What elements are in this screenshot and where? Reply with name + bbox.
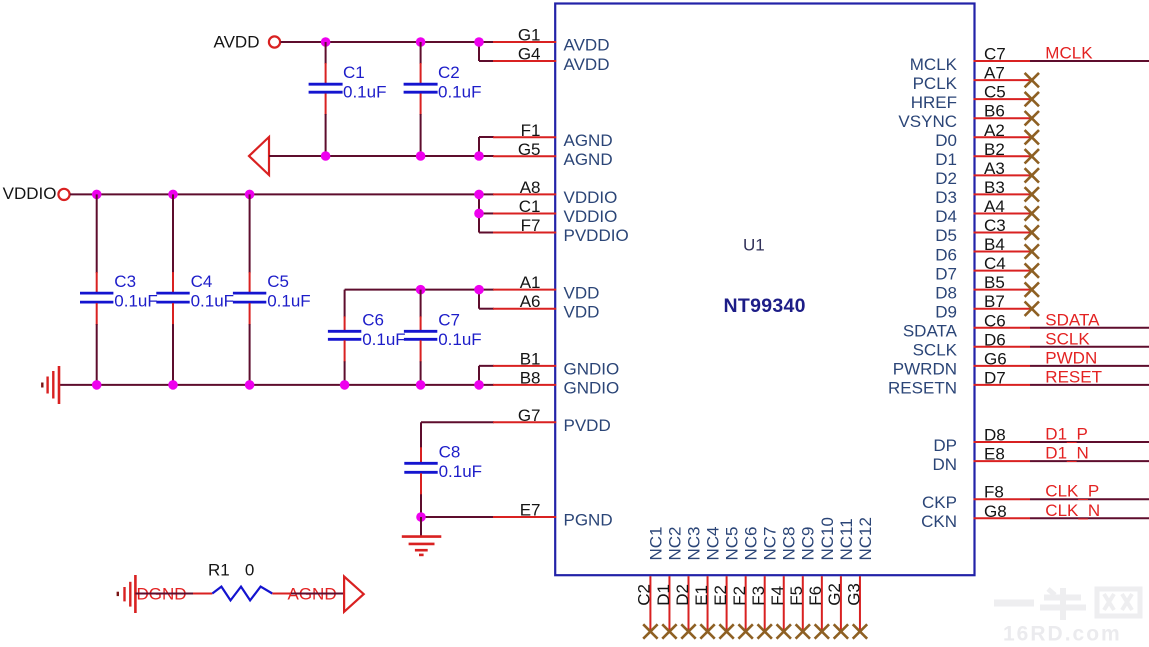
label C2 0.1uF xyxy=(438,63,481,102)
no-connect X on B6 xyxy=(1025,111,1039,125)
svg-text:D2: D2 xyxy=(935,169,957,188)
svg-text:VDDIO: VDDIO xyxy=(564,188,618,207)
no-connect X on B3 xyxy=(1025,187,1039,201)
wire net RESET xyxy=(1030,384,1149,386)
pin B7 (D9) xyxy=(935,292,1030,321)
svg-text:A2: A2 xyxy=(984,121,1005,140)
pin D7 (RESETN) xyxy=(888,368,1030,397)
capacitor C8 xyxy=(404,422,437,517)
svg-text:0.1uF: 0.1uF xyxy=(362,330,405,349)
wire VDDIO drop to C1/F7 pins xyxy=(479,194,494,232)
wire net D1_N xyxy=(1030,460,1149,462)
wire net PWDN xyxy=(1030,365,1149,367)
wire DGND to R1 xyxy=(135,593,194,595)
junction AVDD/C1 xyxy=(321,37,331,47)
svg-text:NC3: NC3 xyxy=(684,526,703,560)
junction VDDIO branch A8 xyxy=(474,190,484,200)
pin F5 (NC9) xyxy=(787,526,818,631)
svg-text:VDDIO: VDDIO xyxy=(3,184,57,203)
no-connect X on NC3 xyxy=(681,624,695,638)
svg-text:G8: G8 xyxy=(984,502,1007,521)
svg-text:C5: C5 xyxy=(984,83,1006,102)
pin G5 (AGND) xyxy=(493,140,613,169)
net label AGND (R1 right) xyxy=(288,584,337,603)
svg-text:B3: B3 xyxy=(984,178,1005,197)
svg-text:B4: B4 xyxy=(984,235,1005,254)
svg-text:A7: A7 xyxy=(984,64,1005,83)
svg-text:C6: C6 xyxy=(362,310,384,329)
svg-text:SCLK: SCLK xyxy=(913,341,958,360)
svg-text:NC7: NC7 xyxy=(761,526,780,560)
junction GND/C3 xyxy=(92,380,102,390)
ground symbol DGND xyxy=(118,575,136,613)
svg-text:SDATA: SDATA xyxy=(903,321,958,340)
no-connect X on NC7 xyxy=(758,624,772,638)
pin F8 (CKP) xyxy=(922,483,1030,512)
label C5 0.1uF xyxy=(267,272,310,311)
svg-text:D8: D8 xyxy=(984,426,1006,445)
svg-text:SDATA: SDATA xyxy=(1045,310,1100,329)
pin C4 (D7) xyxy=(935,254,1030,283)
wire VDDIO rail xyxy=(70,193,494,195)
svg-text:D1_P: D1_P xyxy=(1045,425,1088,444)
pin E1 (NC4) xyxy=(692,526,723,631)
no-connect X on A4 xyxy=(1025,206,1039,220)
no-connect X on NC10 xyxy=(815,624,829,638)
pin F6 (NC10) xyxy=(806,517,837,631)
pin F2 (NC6) xyxy=(730,526,761,631)
wire PGND (E7) xyxy=(421,516,494,518)
junction AGND branch xyxy=(474,151,484,161)
svg-text:D6: D6 xyxy=(935,245,957,264)
no-connect X on B2 xyxy=(1025,149,1039,163)
no-connect X on B4 xyxy=(1025,244,1039,258)
svg-text:VSYNC: VSYNC xyxy=(898,112,957,131)
pin C7 (MCLK) xyxy=(910,45,1030,74)
ground AGND arrow (right) xyxy=(344,577,364,612)
svg-text:F1: F1 xyxy=(521,121,541,140)
svg-text:NC2: NC2 xyxy=(665,526,684,560)
svg-text:C2: C2 xyxy=(438,63,460,82)
svg-text:AGND: AGND xyxy=(564,150,613,169)
svg-text:C4: C4 xyxy=(984,254,1006,273)
no-connect X on NC1 xyxy=(643,624,657,638)
label C1 0.1uF xyxy=(343,63,386,102)
svg-text:GNDIO: GNDIO xyxy=(564,379,620,398)
svg-text:F6: F6 xyxy=(806,586,825,606)
svg-text:D8: D8 xyxy=(935,283,957,302)
svg-text:HREF: HREF xyxy=(911,93,957,112)
pin C3 (D5) xyxy=(935,216,1030,245)
svg-text:NC5: NC5 xyxy=(723,526,742,560)
net label D1_N xyxy=(1045,444,1088,463)
pin B5 (D8) xyxy=(935,273,1030,302)
svg-text:D2: D2 xyxy=(673,584,692,606)
no-connect X on NC11 xyxy=(834,624,848,638)
svg-text:C1: C1 xyxy=(519,197,541,216)
pin G3 (NC12) xyxy=(844,517,875,631)
svg-text:NC9: NC9 xyxy=(799,526,818,560)
svg-text:MCLK: MCLK xyxy=(910,55,958,74)
pin E8 (DN) xyxy=(932,445,1030,474)
svg-text:C7: C7 xyxy=(438,310,460,329)
no-connect X on NC6 xyxy=(738,624,752,638)
svg-text:G5: G5 xyxy=(518,140,541,159)
net label RESET xyxy=(1045,367,1102,386)
no-connect X on B5 xyxy=(1025,282,1039,296)
svg-text:DP: DP xyxy=(933,436,957,455)
junction GND/C6 xyxy=(340,380,350,390)
svg-text:B8: B8 xyxy=(520,368,541,387)
net label SCLK xyxy=(1045,329,1090,348)
capacitor C5 xyxy=(233,194,266,385)
junction VDD/C7 xyxy=(416,285,426,295)
svg-text:F8: F8 xyxy=(984,483,1004,502)
svg-text:PWDN: PWDN xyxy=(1045,348,1097,367)
svg-text:SCLK: SCLK xyxy=(1045,329,1090,348)
junction VDDIO/C3 xyxy=(92,190,102,200)
svg-text:A4: A4 xyxy=(984,197,1005,216)
svg-text:D1_N: D1_N xyxy=(1045,444,1088,463)
pin D8 (DP) xyxy=(933,426,1030,455)
svg-text:PVDDIO: PVDDIO xyxy=(564,226,629,245)
svg-text:A6: A6 xyxy=(520,292,541,311)
pin E2 (NC5) xyxy=(711,526,742,631)
wire net CLK_N xyxy=(1030,517,1149,519)
pin G6 (PWRDN) xyxy=(893,349,1030,378)
svg-text:F4: F4 xyxy=(768,586,787,606)
svg-text:U1: U1 xyxy=(743,236,765,255)
svg-text:B7: B7 xyxy=(984,292,1005,311)
wire PVDD (G7) xyxy=(421,421,494,423)
pin B2 (D1) xyxy=(935,140,1030,169)
svg-text:F7: F7 xyxy=(521,216,541,235)
wire AVDD rail xyxy=(281,41,495,43)
svg-text:RESET: RESET xyxy=(1045,367,1102,386)
capacitor C4 xyxy=(156,194,189,385)
svg-text:D3: D3 xyxy=(935,188,957,207)
pin B3 (D3) xyxy=(935,178,1030,207)
pin C6 (SDATA) xyxy=(903,311,1030,340)
svg-text:CLK_P: CLK_P xyxy=(1045,482,1099,501)
svg-text:DN: DN xyxy=(932,455,957,474)
svg-text:GNDIO: GNDIO xyxy=(564,360,620,379)
net label CLK_N xyxy=(1045,501,1100,520)
svg-text:B1: B1 xyxy=(520,349,541,368)
svg-text:PWRDN: PWRDN xyxy=(893,360,957,379)
pin G4 (AVDD) xyxy=(493,45,609,74)
svg-text:A1: A1 xyxy=(520,273,541,292)
junction AGND/C1 xyxy=(321,151,331,161)
svg-text:NC6: NC6 xyxy=(742,526,761,560)
capacitor C7 xyxy=(404,290,437,385)
junction AVDD branch xyxy=(474,37,484,47)
svg-text:RESETN: RESETN xyxy=(888,379,957,398)
svg-text:B6: B6 xyxy=(984,102,1005,121)
svg-text:D6: D6 xyxy=(984,330,1006,349)
junction VDDIO branch C1 xyxy=(474,209,484,219)
power port VDDIO (terminal) xyxy=(58,189,69,200)
svg-text:C5: C5 xyxy=(267,272,289,291)
svg-text:B2: B2 xyxy=(984,140,1005,159)
pin A4 (D4) xyxy=(935,197,1030,226)
svg-text:G3: G3 xyxy=(844,583,863,606)
net label DGND xyxy=(137,584,187,603)
svg-text:NC10: NC10 xyxy=(818,517,837,560)
pin A7 (PCLK) xyxy=(913,64,1030,93)
junction VDD branch xyxy=(474,285,484,295)
no-connect X on A2 xyxy=(1025,130,1039,144)
svg-text:AVDD: AVDD xyxy=(214,33,260,52)
pin D6 (SCLK) xyxy=(913,330,1030,359)
svg-text:C1: C1 xyxy=(343,63,365,82)
net label PWDN xyxy=(1045,348,1097,367)
junction AVDD/C2 xyxy=(416,37,426,47)
svg-text:16RD.com: 16RD.com xyxy=(1003,623,1122,643)
svg-text:C6: C6 xyxy=(984,311,1006,330)
svg-text:AVDD: AVDD xyxy=(564,55,610,74)
pin B1 (GNDIO) xyxy=(493,349,619,378)
svg-text:NC8: NC8 xyxy=(780,526,799,560)
net label SDATA xyxy=(1045,310,1100,329)
svg-text:G4: G4 xyxy=(518,45,541,64)
svg-text:0.1uF: 0.1uF xyxy=(439,462,482,481)
svg-text:MCLK: MCLK xyxy=(1045,44,1093,63)
junction GND/C4 xyxy=(168,380,178,390)
pin F3 (NC7) xyxy=(749,526,780,631)
svg-text:D7: D7 xyxy=(935,264,957,283)
svg-text:D9: D9 xyxy=(935,302,957,321)
reference designator U1 xyxy=(743,236,765,255)
label C7 0.1uF xyxy=(438,310,481,349)
junction VDDIO/C4 xyxy=(168,190,178,200)
svg-text:C3: C3 xyxy=(984,216,1006,235)
pin B6 (VSYNC) xyxy=(898,102,1030,131)
svg-text:0.1uF: 0.1uF xyxy=(191,292,234,311)
pin A8 (VDDIO) xyxy=(493,178,617,207)
svg-text:NC11: NC11 xyxy=(837,518,856,560)
capacitor C3 xyxy=(80,194,113,385)
svg-text:VDDIO: VDDIO xyxy=(564,207,618,226)
wire net MCLK xyxy=(1030,60,1149,62)
net label AVDD xyxy=(214,33,260,52)
svg-text:C4: C4 xyxy=(191,272,213,291)
pin G8 (CKN) xyxy=(921,502,1030,531)
svg-text:A8: A8 xyxy=(520,178,541,197)
IC U1 NT99340 body xyxy=(555,4,974,576)
svg-text:CKP: CKP xyxy=(922,493,957,512)
label C6 0.1uF xyxy=(362,310,405,349)
wire net SCLK xyxy=(1030,346,1149,348)
pin F4 (NC8) xyxy=(768,526,799,631)
svg-text:0: 0 xyxy=(245,560,254,579)
pin D2 (NC3) xyxy=(673,526,704,631)
svg-text:C3: C3 xyxy=(114,272,136,291)
svg-text:PGND: PGND xyxy=(564,511,613,530)
pin D1 (NC2) xyxy=(654,526,685,631)
junction C8/PGND xyxy=(416,512,426,522)
svg-text:A3: A3 xyxy=(984,159,1005,178)
pin B4 (D6) xyxy=(935,235,1030,264)
junction GND/C5 xyxy=(245,380,255,390)
junction VDDIO/C5 xyxy=(245,190,255,200)
junction GND/C7 xyxy=(416,380,426,390)
pin C2 (NC1) xyxy=(635,526,666,631)
label C3 0.1uF xyxy=(114,272,157,311)
svg-text:F3: F3 xyxy=(749,586,768,606)
pin E7 (PGND) xyxy=(493,501,613,530)
label C4 0.1uF xyxy=(191,272,234,311)
junction GND/branch xyxy=(474,380,484,390)
pin G2 (NC11) xyxy=(825,518,856,631)
pin A1 (VDD) xyxy=(493,273,599,302)
svg-text:AGND: AGND xyxy=(564,131,613,150)
svg-text:0.1uF: 0.1uF xyxy=(438,83,481,102)
net label MCLK xyxy=(1045,44,1093,63)
no-connect X on NC4 xyxy=(700,624,714,638)
pin C5 (HREF) xyxy=(911,83,1030,112)
wire VDD rail xyxy=(345,290,494,309)
ground AGND arrow (left) xyxy=(249,137,269,175)
no-connect X on NC2 xyxy=(662,624,676,638)
no-connect X on C4 xyxy=(1025,263,1039,277)
capacitor C6 xyxy=(328,290,361,385)
svg-text:D5: D5 xyxy=(935,226,957,245)
wire net CLK_P xyxy=(1030,498,1149,500)
label R1 value 0 xyxy=(208,560,254,579)
svg-text:D0: D0 xyxy=(935,131,957,150)
svg-text:CKN: CKN xyxy=(921,512,957,531)
svg-text:C8: C8 xyxy=(439,442,461,461)
svg-text:NC12: NC12 xyxy=(856,517,875,560)
no-connect X on NC9 xyxy=(796,624,810,638)
svg-text:G1: G1 xyxy=(518,26,541,45)
svg-text:NC4: NC4 xyxy=(703,526,722,560)
svg-text:F5: F5 xyxy=(787,586,806,606)
capacitor C1 xyxy=(309,42,343,156)
wire AVDD drop to G4 xyxy=(479,42,494,61)
net label D1_P xyxy=(1045,425,1088,444)
no-connect X on C3 xyxy=(1025,225,1039,239)
svg-text:D7: D7 xyxy=(984,368,1006,387)
label C8 0.1uF xyxy=(439,442,482,481)
no-connect X on NC12 xyxy=(853,624,867,638)
svg-text:0.1uF: 0.1uF xyxy=(438,330,481,349)
no-connect X on A3 xyxy=(1025,168,1039,182)
svg-text:G6: G6 xyxy=(984,349,1007,368)
no-connect X on NC8 xyxy=(777,624,791,638)
svg-text:C7: C7 xyxy=(984,45,1006,64)
svg-text:0.1uF: 0.1uF xyxy=(114,292,157,311)
earth ground under C8 xyxy=(402,517,442,555)
pin A2 (D0) xyxy=(935,121,1030,150)
power port AVDD (terminal) xyxy=(269,36,280,47)
part number NT99340 xyxy=(724,295,806,317)
svg-text:VDD: VDD xyxy=(564,283,600,302)
svg-text:B5: B5 xyxy=(984,273,1005,292)
svg-text:D1: D1 xyxy=(654,584,673,606)
svg-text:AVDD: AVDD xyxy=(564,36,610,55)
net label VDDIO xyxy=(3,184,57,203)
svg-text:G2: G2 xyxy=(825,583,844,606)
wire GND rail xyxy=(59,366,494,385)
wire R1 to AGND arrow xyxy=(291,593,344,595)
pin C1 (VDDIO) xyxy=(493,197,617,226)
junction AGND/C2 xyxy=(416,151,426,161)
svg-text:VDD: VDD xyxy=(564,302,600,321)
wire net D1_P xyxy=(1030,441,1149,443)
svg-text:R1: R1 xyxy=(208,560,230,579)
svg-text:C2: C2 xyxy=(635,584,654,606)
pin A6 (VDD) xyxy=(493,292,599,321)
svg-text:E1: E1 xyxy=(692,585,711,606)
svg-text:E2: E2 xyxy=(711,585,730,606)
net label CLK_P xyxy=(1045,482,1099,501)
svg-text:0.1uF: 0.1uF xyxy=(267,292,310,311)
svg-text:CLK_N: CLK_N xyxy=(1045,501,1100,520)
no-connect X on B7 xyxy=(1025,302,1039,316)
wire AGND rail xyxy=(269,137,494,156)
svg-text:0.1uF: 0.1uF xyxy=(343,83,386,102)
capacitor C2 xyxy=(404,42,438,156)
resistor R1 xyxy=(193,587,292,601)
watermark 16rd.com xyxy=(994,588,1140,646)
pin A3 (D2) xyxy=(935,159,1030,188)
svg-text:NT99340: NT99340 xyxy=(724,295,806,317)
no-connect X on NC5 xyxy=(719,624,733,638)
pin F1 (AGND) xyxy=(493,121,613,150)
wire net SDATA xyxy=(1030,327,1149,329)
pin G7 (PVDD) xyxy=(493,406,611,435)
svg-text:NC1: NC1 xyxy=(646,526,665,560)
pin B8 (GNDIO) xyxy=(493,368,619,397)
pin F7 (PVDDIO) xyxy=(493,216,629,245)
svg-text:E7: E7 xyxy=(520,501,541,520)
svg-text:F2: F2 xyxy=(730,586,749,606)
svg-text:PVDD: PVDD xyxy=(564,416,611,435)
pin G1 (AVDD) xyxy=(493,26,609,55)
no-connect X on C5 xyxy=(1025,92,1039,106)
svg-text:PCLK: PCLK xyxy=(913,74,958,93)
svg-text:D1: D1 xyxy=(935,150,957,169)
svg-text:G7: G7 xyxy=(518,406,541,425)
no-connect X on A7 xyxy=(1025,73,1039,87)
svg-text:E8: E8 xyxy=(984,445,1005,464)
ground symbol (left rail) xyxy=(42,366,59,404)
svg-text:D4: D4 xyxy=(935,207,957,226)
